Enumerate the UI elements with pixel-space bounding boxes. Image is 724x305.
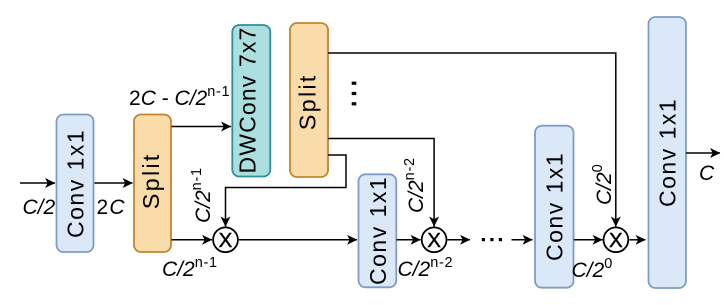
wire into Conv3 [512,239,533,241]
wire Conv1 to Split1 [95,182,133,184]
wire X2 short output arrow [448,239,471,241]
label C/2 input channels [23,196,56,219]
label C/2^0 rotated beside X3 drop wire [590,164,616,205]
svg-text:C: C [699,162,715,185]
block DWConv 7x7 (teal) [232,25,270,177]
wire Split2 low output routed down-left to X1 [226,155,347,227]
block Conv1 (Conv 1x1, blue) [57,115,94,253]
node X2 multiply [422,227,447,252]
block Conv2 (Conv 1x1, blue) [359,174,397,287]
node X1 multiply [213,227,238,252]
horizontal ellipsis between X2 and Conv3 [482,238,502,241]
block Conv4 final (Conv 1x1, blue tall) [649,17,686,288]
svg-text:Conv 1x1: Conv 1x1 [542,152,568,261]
wire input arrow into Conv1 [20,182,55,184]
wire Split1 bottom output to X1 [172,239,213,241]
svg-text:X: X [219,229,233,252]
label C/2^n-1 under X1 [162,255,218,281]
svg-text:X: X [427,229,441,252]
wire X3 to Conv4 [630,239,646,241]
label C/2^n-2 rotated beside X2 drop wire [402,157,428,213]
block Split2 (orange) [290,23,328,177]
label C/2^n-1 rotated beside X1 drop wire [189,167,215,223]
node X3 multiply [604,227,629,252]
label 2C channels [97,196,126,219]
wire Split1 top output to DWConv [172,126,232,128]
label C/2^0 under X3 [572,256,613,282]
block Conv3 (Conv 1x1, blue) [535,126,574,288]
wire X1 to Conv2 [239,239,357,241]
wire Conv3 to X3 [574,239,603,241]
svg-text:Split: Split [138,152,164,209]
wire Split2 mid output down to X2 [328,139,434,227]
label C/2^n-2 under X2 [398,255,454,281]
wire final output arrow [686,152,720,154]
svg-text:2C: 2C [97,196,126,219]
svg-text:Conv 1x1: Conv 1x1 [365,176,391,285]
svg-text:DWConv 7x7: DWConv 7x7 [235,27,261,174]
svg-text:X: X [609,229,623,252]
wire Split2 top output across to X3 [328,53,616,227]
svg-text:Conv 1x1: Conv 1x1 [655,98,681,207]
vertical ellipsis between Split2 outputs [352,82,357,106]
svg-text:Conv 1x1: Conv 1x1 [63,129,89,238]
label 2C - C/2^n-1 on top wire [129,84,230,110]
label C output channels [699,162,715,185]
block Split1 (orange) [134,115,171,253]
svg-text:Split: Split [295,73,321,130]
svg-text:C/2: C/2 [23,196,56,219]
wire Conv2 to X2 [397,239,421,241]
